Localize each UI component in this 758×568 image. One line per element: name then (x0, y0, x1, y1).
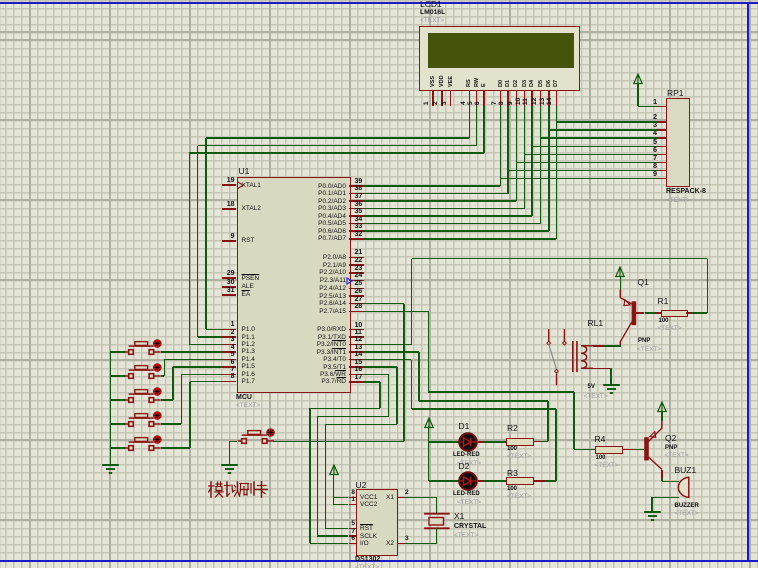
power VCC arrow at U2 (328, 464, 340, 476)
wire U1 P3.3 (pin13) to R2 (364, 351, 419, 353)
wire rail to key (110, 447, 125, 449)
wire key SW5 to U1 P1.7 (161, 447, 190, 449)
wire RP1 pin 9 to LCD D0 (501, 178, 659, 180)
RTC U2 body (356, 489, 398, 556)
wire D1 cathode to R2 (478, 441, 485, 443)
power VCC arrow above RP1 (632, 73, 644, 85)
crystal X1 labels (454, 512, 464, 521)
wire RP1 pin 1 to VCC (638, 106, 659, 108)
LCD1 pin 10 (D3) (522, 79, 528, 86)
LCD1 pin 1 (VSS) (430, 75, 436, 86)
resistor R4 (595, 446, 623, 454)
ground relay RL1 (602, 384, 621, 395)
U1 pin 12 stub (349, 344, 365, 346)
ground SW6 (220, 464, 239, 475)
U1 pin 13 stub (349, 351, 365, 353)
LCD LCD1 screen (428, 33, 574, 68)
wire RP1 pin 7 to LCD D2 (516, 162, 658, 164)
transistor Q2 (PNP) (640, 419, 668, 474)
power VCC arrow at Q1 (614, 266, 626, 278)
wire LCD D7 to U1 P0.7 (556, 106, 558, 238)
resistor R2 (506, 438, 534, 446)
wire Q1 base to R1 (636, 312, 644, 314)
U1 pin 16 stub (349, 374, 365, 376)
wire LCD RW to U1 P1.1 (476, 106, 478, 145)
MCU U1 body (237, 177, 351, 393)
U1 pin 31 (EA) stub (222, 294, 237, 296)
relay RL1 label (588, 319, 604, 328)
wire rail to key (110, 423, 125, 425)
U1 pin 27 stub (349, 303, 365, 305)
wire rail to key (110, 351, 125, 353)
wire R1 right lead (686, 312, 693, 314)
LCD1 pin 9 (D2) (513, 79, 519, 86)
wire LCD D5 to U1 P0.5 (540, 106, 542, 223)
wire R2 right lead (533, 441, 541, 443)
wire SW6 left terminal to ground (230, 441, 238, 443)
LED D2 labels (459, 462, 470, 471)
U1 pin 8 (P1.7) stub (222, 381, 237, 383)
LCD1 pin 2 (VDD) (439, 75, 445, 87)
wire VCC to Q1 emitter (620, 276, 622, 290)
U1 pin 23 stub (349, 272, 365, 274)
wire Q2 collector to buzzer (661, 470, 663, 479)
RP1 pin 1 (658, 106, 666, 108)
U2 pin 6 stub (349, 543, 357, 545)
U1 pin 7 (P1.6) stub (222, 374, 237, 376)
sheet border bottom (blue) (0, 560, 758, 562)
push button SW6 (236, 427, 283, 447)
U1 pin 15 stub (349, 366, 365, 368)
wire VCC to D1 and D2 anodes (428, 426, 430, 482)
LCD1 pin 13 (D6) (546, 79, 552, 86)
LCD1 pin 7 (D0) (498, 79, 504, 86)
wire crystal to U2 X2 (436, 528, 438, 543)
wire key SW2 to U1 P1.4 (161, 375, 165, 377)
RP1 pin 9 (658, 178, 666, 180)
push button SW5 (123, 434, 169, 454)
U1 pin 5 (P1.4) stub (222, 359, 237, 361)
LCD1 pin 8 (D1) (505, 79, 511, 86)
MCU U1 labels (239, 167, 250, 176)
wire key SW3 to U1 P1.5 (161, 399, 173, 401)
buzzer BUZ1 (673, 474, 693, 501)
U1 pin 35 stub (349, 215, 365, 217)
LCD1 pin 5 (RW) (474, 77, 480, 86)
crystal X1 (421, 510, 457, 532)
wire U1 P3.7 (pin17) to U2 I/O (364, 381, 380, 383)
U1 pin 39 stub (349, 185, 365, 187)
wire RP1 pin 6 to LCD D3 (525, 154, 659, 156)
U1 pin 22 stub (349, 264, 365, 266)
U1 pin 4 (P1.3) stub (222, 351, 237, 353)
U1 pin 34 stub (349, 223, 365, 225)
wire U1 P3.5 (pin15) to U2 RST (364, 366, 396, 368)
U2 pin 1 stub (349, 504, 357, 506)
wire LCD E to U1 P1.2 (483, 106, 485, 153)
sheet border top (blue) (0, 2, 758, 4)
U1 pin 17 stub (349, 381, 365, 383)
wire buzzer to ground (652, 497, 679, 499)
wire relay coil to ground (593, 368, 611, 370)
U1 pin 18 (XTAL2) stub (222, 208, 237, 210)
LCD1 pin 11 (D4) (529, 79, 535, 86)
resistor R1 labels (658, 297, 669, 306)
wire LCD D2 to U1 P0.2 (516, 106, 518, 201)
U1 pin 25 stub (349, 288, 365, 290)
push button SW2 (123, 362, 169, 382)
LCD1 pin 6 (E) (481, 83, 487, 87)
wire R4 left lead (593, 449, 595, 451)
wire key SW4 to U1 P1.6 (161, 423, 182, 425)
wire LCD D6 to U1 P0.6 (548, 106, 550, 231)
LED D2 (457, 470, 479, 492)
RP1 pin 5 (658, 146, 666, 148)
wire U1 P3.6 (pin16) to U2 SCLK (364, 374, 388, 376)
LCD1 pin 4 (RS) (466, 79, 472, 87)
resistor R1 (661, 310, 688, 318)
wire U1 P2.6 (pin27) to key SW6 (364, 303, 404, 305)
wire RP1 pin 2 to LCD D7 (556, 121, 658, 123)
push button SW1 (123, 338, 169, 358)
U2 pin 7 stub (349, 535, 357, 537)
wire LCD D3 to U1 P0.3 (524, 106, 526, 208)
power VCC arrow at Q2 (656, 401, 668, 413)
U2 pin 2 (X1) stub (397, 497, 405, 499)
wire VCC to Q2 emitter (661, 411, 663, 421)
wire key SW1 to U1 P1.3 (161, 351, 222, 353)
wire Q1 collector to relay coil (603, 345, 621, 347)
U1 pin 6 (P1.5) stub (222, 366, 237, 368)
U1 pin 1 (P1.0) stub (222, 329, 237, 331)
U1 pin 33 stub (349, 230, 365, 232)
wire rail to key (110, 375, 125, 377)
U1 pin 32 stub (349, 238, 365, 240)
RP1 pin 3 (658, 129, 666, 131)
LCD1 pin 14 (D7) (553, 79, 559, 86)
resistor R2 labels (507, 424, 518, 433)
RP1 pin 7 (658, 162, 666, 164)
push button SW3 (123, 386, 169, 406)
resistor pack RP1 labels (667, 89, 684, 98)
wire keypad ground rail (110, 352, 112, 465)
wire U1 P3.2 (pin12) to R1 (364, 344, 411, 346)
LED D1 labels (459, 422, 470, 431)
LCD1 pin 3 (VEE) (448, 75, 454, 86)
buzzer BUZ1 labels (675, 466, 697, 475)
caption 模拟刷卡 (simulated card swipe) (208, 481, 268, 498)
U1 pin 21 stub (349, 257, 365, 259)
breakpoint marker at U1 pin 24 (346, 277, 353, 285)
transistor Q1 (PNP) (614, 288, 642, 348)
wire R3 right lead (533, 480, 545, 482)
U1 pin 37 stub (349, 200, 365, 202)
U1 pin 9 (RST) stub (222, 240, 237, 242)
power VCC arrow for LEDs (423, 417, 435, 429)
U1 pin 3 (P1.2) stub (222, 344, 237, 346)
U1 pin 14 stub (349, 359, 365, 361)
RP1 pin 4 (658, 137, 666, 139)
XTAL1 clock chevron (237, 181, 245, 190)
wire R4 to Q2 base (622, 449, 634, 451)
U1 pin 2 (P1.1) stub (222, 336, 237, 338)
push button SW4 (123, 410, 169, 430)
LCD LCD1 labels (420, 0, 442, 9)
resistor R3 (506, 477, 534, 485)
U1 pin 19 (XTAL1) stub (222, 184, 237, 186)
U1 pin 10 stub (349, 329, 365, 331)
U1 pin 38 stub (349, 193, 365, 195)
ground keypad rail (101, 464, 120, 475)
transistor Q1 labels (638, 278, 649, 287)
wire RP1 pin 3 to LCD D6 (549, 129, 659, 131)
transistor Q2 labels (665, 434, 676, 443)
U2 pin 5 stub (349, 528, 357, 530)
U1 pin 11 stub (349, 336, 365, 338)
resistor R4 labels (595, 435, 606, 444)
wire RP1 pin 4 to LCD D5 (541, 137, 659, 139)
U1 pin 36 stub (349, 208, 365, 210)
wire RP1 pin 8 to LCD D1 (508, 170, 658, 172)
wire VCC to U2 VCC1/VCC2 (333, 474, 335, 504)
relay RL1 contacts (542, 326, 570, 388)
label 5V (588, 384, 595, 391)
U1 pin 26 stub (349, 295, 365, 297)
wire rail to key (110, 399, 125, 401)
wire D2 cathode to R3 (478, 480, 485, 482)
wire LCD D1 to U1 P0.1 (507, 106, 509, 193)
RP1 pin 6 (658, 154, 666, 156)
RTC U2 labels (356, 481, 367, 490)
wire U2 X1 to crystal (405, 497, 437, 499)
wire LCD D4 to U1 P0.4 (531, 106, 533, 216)
wire U1 P3.4 (pin14) to R3 (364, 359, 411, 361)
wire LCD D0 to U1 P0.0 (500, 106, 502, 186)
U1 pin 28 stub (349, 311, 365, 313)
RP1 pin 8 (658, 170, 666, 172)
RP1 pin 2 (658, 121, 666, 123)
resistor pack RP1 body (666, 98, 690, 187)
wire LCD RS to U1 P1.0 (469, 106, 471, 138)
LCD LCD1 body (419, 26, 580, 91)
U1 pin 29 (PSEN) stub (222, 277, 237, 279)
wire RP1 pin 5 to LCD D4 (532, 146, 658, 148)
relay RL1 coil (570, 339, 594, 374)
U2 pin 8 stub (349, 497, 357, 499)
resistor R3 labels (507, 469, 518, 478)
U2 pin 3 (X2) stub (397, 543, 405, 545)
wire U1 P2.7 (pin28) to R4 (364, 311, 428, 313)
LCD1 pin 12 (D5) (538, 79, 544, 86)
sheet border right (blue) (747, 2, 749, 562)
LED D1 (457, 431, 479, 453)
U1 pin 24 stub (349, 280, 365, 282)
ground buzzer (643, 511, 662, 522)
U1 pin 30 (ALE) stub (222, 286, 237, 288)
